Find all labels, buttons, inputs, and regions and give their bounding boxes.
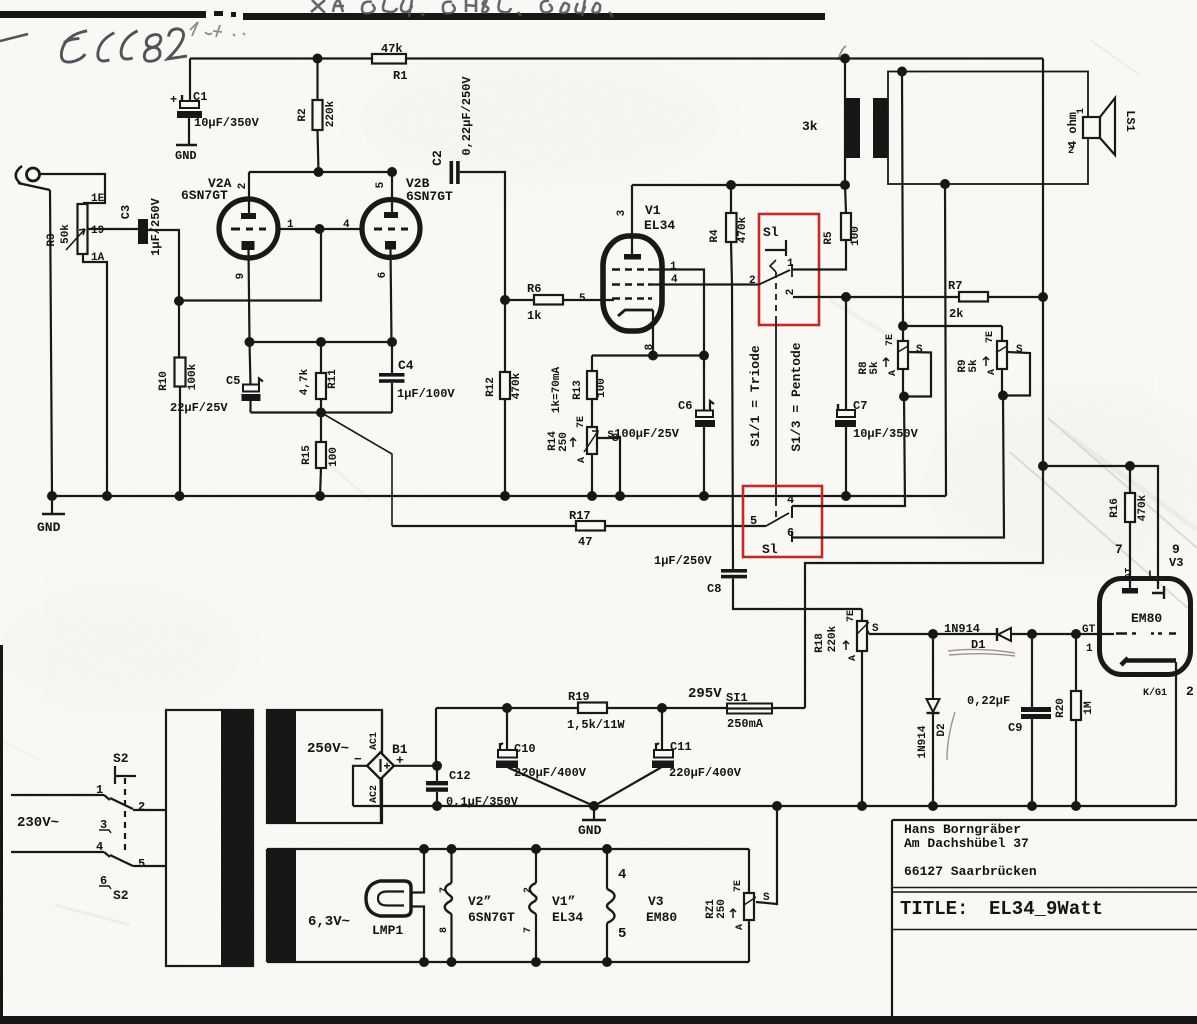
- lower S1 pin6 contact: [791, 531, 793, 542]
- heater bus bottom: [267, 961, 749, 963]
- ground symbol under C1: [175, 145, 197, 163]
- wire R8 node to R9: [903, 325, 1002, 327]
- C2 labels: [430, 76, 474, 166]
- V1 grid rows: [612, 270, 652, 299]
- wire S1 pin2 to R7 line: [793, 296, 959, 298]
- V3 heater labels: [618, 867, 677, 942]
- node heater dots V1'': [531, 844, 541, 854]
- node rail R18 dot: [857, 801, 867, 811]
- cathode link line: [592, 354, 704, 356]
- node cathode mid dot: [316, 337, 326, 347]
- ground symbol left: [37, 496, 65, 535]
- node R8 bottom dot: [899, 392, 909, 402]
- wire AC2 to winding: [379, 779, 382, 823]
- LMP1 label: [372, 923, 403, 938]
- node bus R15 dot: [315, 491, 325, 501]
- coupling capacitor C8 1uF/250V: [721, 569, 862, 609]
- capacitor C4 1uF/100V: [379, 342, 405, 413]
- R15 labels: [301, 445, 340, 467]
- S1/1 Triode label: [748, 345, 763, 447]
- node R2 bottom junction: [314, 167, 324, 177]
- pin 4 label: [343, 219, 350, 231]
- C6 labels: [607, 399, 692, 441]
- wire B1 plus to C12 node: [394, 765, 437, 767]
- bottom page border: [0, 1016, 1197, 1024]
- grid leak resistor R10 100k: [175, 301, 186, 496]
- pin 1 screen wire: [652, 270, 704, 412]
- pencil scribble under D1: [948, 649, 1015, 656]
- node heater dots V2'': [447, 844, 457, 854]
- pin 1E: [91, 193, 105, 205]
- damping resistor R7 2k: [959, 292, 1043, 302]
- magic eye V3 EM80 envelope: [1100, 579, 1191, 675]
- wire V2B cathode down: [391, 250, 392, 343]
- node rail D2 dot: [928, 801, 938, 811]
- 6,3V label: [308, 914, 350, 930]
- upper S1 pin labels: [749, 258, 797, 295]
- C11 labels: [669, 740, 742, 780]
- wire V1 plate riser: [631, 185, 633, 254]
- trimmer R8 5k: [898, 326, 931, 397]
- node C7 tap dot: [841, 292, 851, 302]
- wire C3 to grid node: [148, 230, 179, 301]
- level pot R18 220k: [857, 609, 869, 806]
- node R7 right dot: [1038, 292, 1048, 302]
- B+ filter line: [436, 707, 727, 709]
- S1/3 Pentode label: [789, 342, 804, 451]
- R1 labels: [381, 42, 407, 83]
- node secondary top dot: [897, 67, 907, 77]
- LS1 labels: [1066, 108, 1137, 157]
- wire S1 pin6 to R9 loop: [792, 396, 1004, 538]
- node rail C12 dot: [432, 801, 442, 811]
- wire secondary return to ground bus: [945, 184, 946, 496]
- pin 4 wire to switch: [652, 283, 758, 285]
- wire B+ rail right drop: [1042, 59, 1044, 298]
- R18 labels: [814, 610, 879, 661]
- R5 labels: [823, 226, 862, 246]
- B+ top rail: [190, 57, 1043, 59]
- anode rail V2A/V2B: [249, 171, 392, 173]
- heater bus top: [267, 848, 749, 850]
- V3 pin labels top: [1124, 567, 1155, 582]
- wire jack to volume pot R3: [40, 174, 105, 203]
- paper noise overlay: [0, 0, 1, 1]
- D2 labels: [917, 723, 948, 758]
- left page border (lower half): [0, 645, 3, 1018]
- R6 labels: [527, 282, 541, 323]
- node D2 branch dot: [928, 629, 938, 639]
- plate resistor R16 470k: [1125, 466, 1135, 589]
- screen resistor R5 100: [841, 185, 851, 240]
- diode D1 1N914: [997, 628, 1011, 641]
- V1 plate bar: [624, 254, 641, 260]
- wire V2A grid coupling line pins 1-4: [278, 228, 362, 230]
- C1 labels: [170, 90, 260, 130]
- node bus C7 dot: [841, 491, 851, 501]
- R16 labels: [1109, 494, 1183, 570]
- heater V1'' EL34: [529, 849, 536, 962]
- V3 grid dashes: [1116, 632, 1176, 635]
- capacitor C3 1uF/250V: [138, 219, 148, 244]
- capacitor C9 0,22uF: [1021, 634, 1051, 806]
- ground rail bottom: [353, 805, 1176, 807]
- lower S1 moving contact: [766, 513, 789, 526]
- heater V3 EM80: [607, 849, 615, 962]
- node heater dots LMP1: [419, 844, 429, 854]
- capacitor C5 22uF/25V: [242, 342, 264, 413]
- handwriting: crossed-out tube types at top: [311, 0, 613, 17]
- 250V label: [307, 741, 349, 757]
- node grid junction dot: [174, 296, 184, 306]
- filter capacitor C11 220uF/400V: [594, 708, 674, 806]
- node R8 top dot: [898, 321, 908, 331]
- handwriting: small scribble right of ECC82: [190, 22, 846, 60]
- V1 cathode: [618, 310, 653, 316]
- S2 upper moving contact: [104, 795, 133, 809]
- node rail R20 dot: [1071, 801, 1081, 811]
- R10 labels: [158, 363, 199, 391]
- wire AC1 from winding: [381, 710, 383, 753]
- wire B1 minus to ground rail: [353, 766, 367, 806]
- C7 labels: [853, 399, 919, 441]
- power transformer primary core black: [221, 710, 253, 966]
- wire B+ riser to R19 line: [435, 708, 437, 766]
- node bus R10 dot: [175, 491, 185, 501]
- node R4 top dot: [726, 180, 736, 190]
- V3 target bar: [1121, 658, 1176, 665]
- lower S1 pin4 contact: [791, 506, 793, 518]
- R13 labels: [551, 367, 608, 414]
- R20 labels: [1055, 698, 1095, 718]
- S2 linkage dashed: [124, 778, 126, 855]
- R12 labels: [485, 372, 523, 399]
- node C10 dot: [502, 703, 512, 713]
- wire OT primary winding: [844, 59, 846, 186]
- node R16 top dot: [1125, 461, 1135, 471]
- node V2B plate junction: [387, 167, 397, 177]
- anode line to output transformer: [632, 184, 845, 186]
- heater winding 6,3V box: [267, 849, 296, 962]
- node rail RZ1 dot: [772, 801, 782, 811]
- wire R14 wiper to bus: [598, 438, 620, 496]
- wire V2A plate riser: [248, 172, 250, 213]
- R11 labels: [299, 368, 339, 395]
- pin 1A: [91, 252, 105, 264]
- pin 5 label V1 grid: [579, 293, 586, 305]
- upper S1 moving contact: [758, 264, 792, 285]
- V3 plate bar: [1122, 588, 1138, 594]
- upper S1 label: [763, 225, 779, 240]
- node bus wiper dot: [615, 491, 625, 501]
- triode V2A 6SN7GT: [219, 199, 278, 258]
- node heater dots V3: [602, 844, 612, 854]
- wire V2A cathode down: [249, 250, 250, 342]
- cathode resistor R11 4.7k: [316, 342, 326, 413]
- wire S2 to transformer primary bottom: [133, 865, 166, 867]
- node bus R14 dot: [587, 491, 597, 501]
- wire V2B plate riser: [391, 172, 393, 212]
- wire jack sleeve to ground bus: [50, 190, 52, 496]
- C10 labels: [514, 742, 587, 780]
- wire S2 to transformer primary top: [133, 809, 166, 811]
- R7 labels: [948, 279, 963, 321]
- ground symbol center: [578, 806, 606, 838]
- potentiometer R3 50k: [66, 204, 88, 254]
- capacitor C2 0,22uF/250V: [450, 161, 460, 184]
- title block frame: [892, 820, 1197, 1016]
- resistor R15 100: [316, 413, 326, 497]
- node cathode right dot: [387, 337, 397, 347]
- loudspeaker LS1: [1083, 98, 1115, 155]
- R8 labels: [858, 334, 923, 376]
- top border gap dash: [214, 11, 223, 16]
- output transformer core bar primary: [846, 98, 860, 158]
- OT impedance label 3k: [802, 119, 818, 134]
- pilot lamp LMP1: [366, 849, 424, 962]
- V3 name label: [1131, 611, 1162, 626]
- C12 labels: [446, 769, 519, 809]
- node rail GND star dot: [589, 801, 599, 811]
- top border bar (right part, strike under handwriting): [243, 13, 825, 20]
- bypass capacitor C6 100uF/25V: [695, 401, 715, 496]
- node rail C9 dot: [1027, 801, 1037, 811]
- resistor R1 47k: [372, 54, 406, 64]
- cathode bottom link C5-R11-C4: [251, 411, 393, 413]
- node rail OT primary dot: [840, 54, 850, 64]
- input jack J: [16, 166, 50, 190]
- pencil scribble near D2: [947, 712, 955, 760]
- pin 4 label: [671, 274, 678, 286]
- C8 labels: [654, 554, 721, 596]
- node cathode left dot: [245, 337, 255, 347]
- R17 labels: [569, 509, 592, 549]
- V2'' labels: [439, 887, 515, 933]
- R3 label: [46, 224, 72, 247]
- V3 L electrode: [1152, 586, 1164, 599]
- output transformer core bar secondary: [873, 98, 888, 158]
- main ground bus: [52, 495, 946, 497]
- node bus jack dot: [47, 491, 57, 501]
- node bus R12 dot: [500, 491, 510, 501]
- C3 labels: [119, 197, 163, 255]
- wire S1 pin4 to R8 loop: [792, 397, 905, 507]
- wire V1 cathode down: [652, 310, 654, 356]
- wire R3 wiper to C3: [87, 228, 138, 230]
- power transformer primary box: [166, 710, 253, 966]
- R14 labels: [547, 416, 619, 463]
- switch linkage dashed/solid: [775, 272, 777, 320]
- feedback diagonal from cathode node: [321, 413, 392, 527]
- pin 1 label: [287, 219, 294, 231]
- trimmer R9 5k: [997, 326, 1030, 396]
- node rail/R2 junction: [313, 54, 323, 64]
- triode V2B 6SN7GT: [362, 200, 420, 258]
- node C12 top dot: [432, 761, 442, 771]
- wire feed to R16 and target: [1043, 466, 1158, 589]
- pin 1 label: [670, 261, 677, 273]
- capacitor C1 10uF/350V: [177, 95, 202, 144]
- pentode V1 EL34 envelope: [603, 236, 662, 331]
- fuse SI1 250mA: [727, 704, 805, 714]
- resistor R2 220k: [313, 59, 323, 173]
- current sense resistor R13 100: [587, 356, 597, 428]
- trimmer R14 250: [584, 427, 598, 496]
- wire V3 cathode to rail: [1175, 662, 1177, 806]
- R2 labels: [297, 100, 337, 127]
- switch S2 fixed contact: [115, 766, 136, 784]
- node R20 top dot: [1071, 629, 1081, 639]
- lower switch red box S1: [743, 486, 822, 557]
- pen tick top-left corner: [0, 34, 28, 41]
- dropper resistor R19 1,5k/11W: [578, 703, 607, 714]
- node C9 top dot: [1027, 629, 1037, 639]
- node R9 bottom dot: [998, 391, 1008, 401]
- diode D2 1N914: [927, 634, 940, 806]
- cathode bus V2A/V2B: [250, 341, 393, 343]
- S2 label top: [113, 751, 129, 766]
- pin 1S: [91, 225, 104, 237]
- V3 cathode labels: [1082, 624, 1194, 699]
- wire B+ drop to EM80 feed: [805, 297, 1043, 708]
- feedback resistor R17 47: [392, 521, 766, 531]
- V1 labels: [616, 203, 675, 233]
- R9 labels: [957, 331, 1023, 375]
- scan background blotches: [0, 0, 1, 1]
- C4 labels: [397, 358, 455, 401]
- grid line to V3: [869, 633, 1114, 635]
- wire R3 bottom to ground bus: [83, 254, 107, 496]
- wire S1 pin1 to R5: [792, 240, 846, 270]
- node OT primary dot: [840, 180, 850, 190]
- filter capacitor C10 220uF/400V: [496, 708, 594, 806]
- wire secondary winding down to R8: [902, 72, 903, 327]
- node C11 dot: [657, 703, 667, 713]
- node bus R3 dot: [102, 491, 112, 501]
- node pins 1-4 junction: [315, 224, 325, 234]
- node bus C6 dot: [699, 491, 709, 501]
- upper switch red box S1: [759, 214, 819, 325]
- grid resistor R20 1M: [1071, 634, 1081, 806]
- title text: [900, 898, 1103, 920]
- speaker secondary box: [888, 72, 1088, 185]
- RZ1 labels: [705, 880, 770, 930]
- node cathode/C6 dots: [648, 351, 658, 361]
- grid stopper R6 1k: [505, 295, 614, 305]
- top border gap dot: [231, 12, 236, 17]
- node R6/R12 junction: [500, 295, 510, 305]
- heater V2'' 6SN7GT: [445, 849, 452, 962]
- V2B labels: [375, 176, 453, 278]
- decoupling capacitor C7 10uF/350V: [835, 297, 856, 496]
- mains wire N: [11, 851, 104, 853]
- D1 labels: [944, 622, 985, 652]
- bridge rectifier B1: [367, 752, 394, 779]
- S2 lower moving contact: [104, 852, 133, 866]
- wire rail down to C1: [189, 59, 191, 104]
- wire C2 to R6 node: [460, 172, 505, 300]
- V2A labels: [181, 176, 249, 279]
- SI1 labels: [688, 686, 764, 731]
- pin 8 label: [644, 343, 656, 350]
- R19 labels: [567, 690, 625, 732]
- B1 labels: [354, 732, 408, 803]
- node secondary bottom dot: [940, 179, 950, 189]
- C5 labels: [170, 374, 240, 415]
- hum pot RZ1 250: [744, 806, 777, 962]
- S2 pin labels: [96, 783, 145, 903]
- mains wire L: [11, 794, 104, 796]
- upper S1 chevron contact: [770, 260, 776, 272]
- handwriting: ECC82 annotation: [61, 29, 187, 62]
- secondary 250V box: [267, 710, 382, 823]
- capacitor C12 0,1uF/350V: [426, 766, 448, 806]
- node EM80 feed junction: [1038, 461, 1048, 471]
- V1'' labels: [523, 887, 583, 933]
- R4 labels: [709, 216, 749, 243]
- upper S1 fixed contact: [765, 240, 786, 256]
- wire grid node to V2A grid riser: [179, 229, 321, 301]
- screen feed resistor R4 470k: [726, 185, 737, 569]
- grid resistor R12 470k: [500, 300, 510, 496]
- lower S1 pin labels: [750, 493, 794, 557]
- node R11 bottom junction: [316, 408, 326, 418]
- top border bar (left part): [0, 11, 206, 18]
- C9 labels: [967, 694, 1022, 735]
- mains label 230V: [17, 815, 59, 831]
- title block address text: [904, 822, 1037, 879]
